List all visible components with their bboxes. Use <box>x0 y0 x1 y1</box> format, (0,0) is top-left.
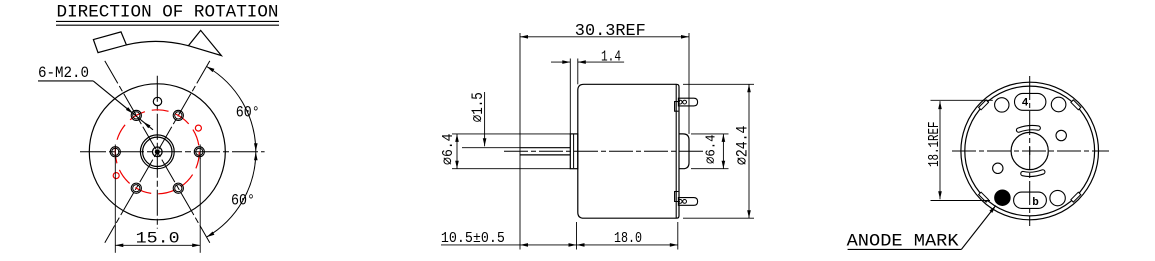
spoke centerline 60 deg <box>105 61 210 243</box>
label 10.5+-0.5 <box>441 230 505 247</box>
terminal tab bottom <box>675 192 698 206</box>
vent slot bottom <box>1023 172 1043 174</box>
terminal slot bottom <box>1014 192 1047 208</box>
small hole left <box>993 163 1003 173</box>
red hole at 30 deg <box>195 125 201 131</box>
rim notches <box>979 100 1081 202</box>
dim line 30.3REF <box>520 36 689 38</box>
arrows 18.0 <box>577 243 678 247</box>
shaft circle <box>153 147 163 157</box>
terminal marker b <box>1032 197 1039 209</box>
60 deg dimension arc upper <box>207 67 256 152</box>
svg-text:60°: 60° <box>236 104 260 122</box>
svg-text:15.0: 15.0 <box>136 230 180 248</box>
rear center circle <box>1011 132 1048 169</box>
dim line 1.4 <box>551 61 624 63</box>
leader line 6-M2.0 <box>38 81 153 130</box>
vertical centerline <box>156 76 158 229</box>
front boss face seam <box>573 135 575 169</box>
terminal tab top <box>675 98 698 111</box>
ext line 18.0 right <box>677 222 679 250</box>
motor body side view <box>578 84 679 218</box>
label ANODE MARK <box>847 231 960 251</box>
dim line 18.1REF <box>939 101 941 199</box>
front bearing boss <box>570 134 578 169</box>
dim line dia6.4 right <box>722 134 724 169</box>
shaft center dot <box>155 150 159 154</box>
terminal slot top <box>1015 93 1046 110</box>
ext lines dia6.4 right <box>691 134 729 169</box>
title underline double <box>56 21 279 25</box>
svg-text:18.1REF: 18.1REF <box>926 122 943 168</box>
ext line dia1.5 <box>462 147 520 149</box>
rear view vertical centerline <box>1029 76 1031 226</box>
side hole ticks <box>115 145 200 160</box>
leader dia1.5 <box>484 92 486 146</box>
dim line dia6.4 left <box>456 134 458 169</box>
svg-text:∅6.4: ∅6.4 <box>703 134 719 164</box>
arrows 30.3REF <box>520 35 689 39</box>
arrows 10.5 <box>520 243 577 247</box>
side view centerline <box>504 150 706 152</box>
pilot hole top <box>153 97 161 105</box>
anode mark filled circle <box>995 190 1010 205</box>
small hole right <box>1056 130 1066 140</box>
rotation arrow head triangle <box>188 30 221 55</box>
ext lines 15.0 <box>115 158 200 253</box>
terminal marker 4 <box>1022 98 1029 110</box>
ext line 10.5 right / 18.0 left <box>576 222 578 250</box>
red hole at 210 deg <box>113 173 119 179</box>
label 6-M2.0 <box>38 64 89 82</box>
svg-text:ANODE MARK: ANODE MARK <box>847 231 960 251</box>
arc arrowheads <box>207 67 258 238</box>
motor outer circle front view <box>89 84 225 220</box>
ext line 1.4 right(body face up) <box>577 59 579 85</box>
horizontal centerline <box>80 151 265 153</box>
svg-text:1.4: 1.4 <box>601 48 621 65</box>
svg-text:∅24.4: ∅24.4 <box>733 126 751 166</box>
arrow dia1.5 <box>483 138 487 146</box>
anode leader arrowhead <box>989 206 995 213</box>
arrows dia6.4 left <box>455 134 459 169</box>
label 60 lower <box>231 192 255 210</box>
svg-text:18.0: 18.0 <box>614 230 642 247</box>
svg-text:DIRECTION OF ROTATION: DIRECTION OF ROTATION <box>57 2 279 22</box>
label dia6.4 left <box>441 133 457 165</box>
rotation arrow tail rectangle <box>93 32 126 53</box>
ext lines dia6.4 left <box>452 134 570 169</box>
label 18.1REF <box>926 122 943 168</box>
label 18.0 <box>614 230 642 247</box>
rear outer circle <box>961 82 1099 220</box>
svg-text:60°: 60° <box>231 192 255 210</box>
dim line 18.0 <box>577 244 678 246</box>
hole top left <box>995 98 1009 112</box>
arrows 15.0 <box>115 244 200 248</box>
ext lines 18.1REF <box>931 100 993 200</box>
leader arrowheads at hole <box>126 107 151 128</box>
svg-text:∅6.4: ∅6.4 <box>441 133 457 165</box>
rear view horizontal centerline <box>952 150 1109 152</box>
hub outer circle <box>140 135 174 169</box>
svg-text:4: 4 <box>1022 98 1029 110</box>
label dia24.4 <box>733 126 751 166</box>
dim line 10.5 <box>441 244 577 246</box>
svg-text:∅1.5: ∅1.5 <box>469 92 487 122</box>
rear inner rim circle <box>965 86 1095 216</box>
spoke centerline 120 deg <box>105 61 210 243</box>
rotation arrow arc <box>126 41 188 45</box>
center cross <box>1026 147 1034 155</box>
dim line 15.0 <box>115 244 200 246</box>
ext line left 30.3REF/10.5 <box>519 33 521 250</box>
svg-text:b: b <box>1032 197 1039 209</box>
label 15.0 <box>136 230 180 248</box>
label 60 upper <box>236 104 260 122</box>
title DIRECTION OF ROTATION <box>57 2 279 22</box>
ext line right 30.3REF <box>688 33 690 134</box>
vent slot top <box>1019 128 1039 130</box>
svg-text:6-M2.0: 6-M2.0 <box>38 64 89 82</box>
arrows 18.1REF <box>938 101 942 199</box>
shaft <box>520 148 570 155</box>
label 1.4 <box>601 48 621 65</box>
mounting holes 6-M2.0 (6x double circle) <box>110 110 204 193</box>
anode mark leader <box>848 206 996 250</box>
hub inner circle <box>143 137 172 166</box>
bolt circle red dashed <box>115 110 199 194</box>
ext line 1.4 left <box>569 59 571 134</box>
ext lines dia24.4 <box>683 84 754 218</box>
svg-text:30.3REF: 30.3REF <box>575 21 646 40</box>
60 deg dimension arc lower <box>207 152 256 237</box>
end cap seam <box>675 84 677 218</box>
hole top right <box>1051 97 1066 112</box>
arrows dia24.4 <box>747 84 751 218</box>
svg-text:10.5±0.5: 10.5±0.5 <box>441 230 505 247</box>
rear bearing boss <box>679 134 689 169</box>
label 30.3REF <box>575 21 646 40</box>
label dia6.4 right <box>703 134 719 164</box>
hole bottom right <box>1050 190 1065 205</box>
dim line dia24.4 <box>748 84 750 218</box>
arrows 1.4 <box>562 60 586 64</box>
arrows dia6.4 right <box>722 134 726 169</box>
label dia1.5 <box>469 92 487 122</box>
